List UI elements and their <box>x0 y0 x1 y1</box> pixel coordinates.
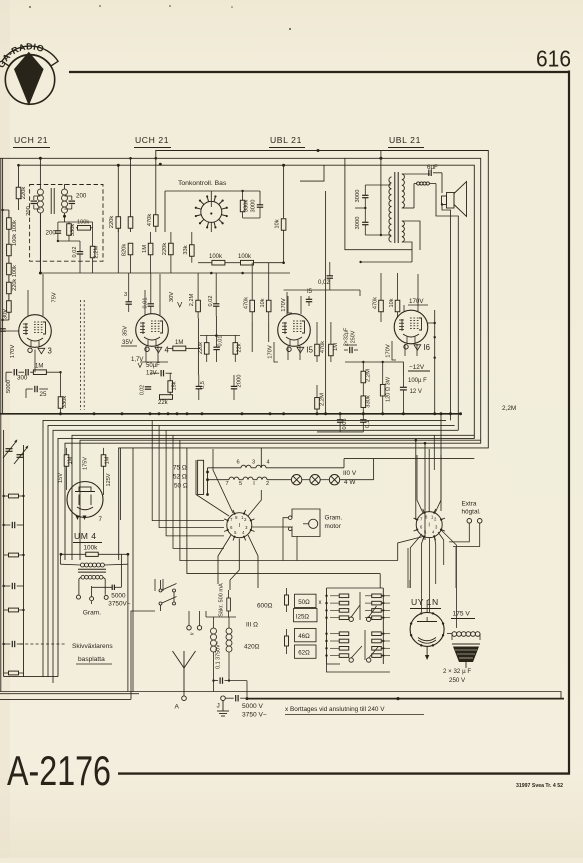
resistor 100k IF <box>78 226 91 231</box>
svg-text:470k: 470k <box>372 297 378 309</box>
selector bracket <box>198 460 204 494</box>
changer component 3 <box>9 553 19 557</box>
svg-text:5000 V: 5000 V <box>242 703 264 710</box>
resistor 100k coupling 2 <box>241 260 254 265</box>
IF transformer core <box>50 188 52 214</box>
mains choke right <box>226 628 232 634</box>
svg-text:100k: 100k <box>84 545 99 552</box>
rectifier cathode arrow <box>426 646 428 655</box>
gram terminal 2 with pin <box>90 597 94 601</box>
bottom bus heavy <box>247 698 564 700</box>
speaker field coil <box>417 182 420 185</box>
svg-text:Gram.: Gram. <box>83 610 101 617</box>
resistor 330k tube3 <box>58 397 63 409</box>
rectifier tube UY1N <box>410 612 444 646</box>
svg-text:UBL 21: UBL 21 <box>270 135 302 145</box>
svg-text:Säkr. 500 mA: Säkr. 500 mA <box>218 583 224 617</box>
resistor 100k ladder 4 <box>7 282 12 294</box>
wire left edge vertical pair <box>2 158 4 414</box>
wire IF bottom joins <box>58 240 80 242</box>
resistor 120ohm 3W <box>380 384 385 396</box>
wire 431.9 link <box>317 431 363 433</box>
svg-text:3: 3 <box>252 460 255 466</box>
svg-text:−12V: −12V <box>409 364 425 371</box>
wire ladder rungs <box>3 209 9 211</box>
wire transformer secondary bottom leads <box>402 221 420 250</box>
svg-text:50 Ω: 50 Ω <box>174 483 188 490</box>
wire 3000 caps to transformer <box>365 184 391 186</box>
gram transformer primary <box>81 563 85 567</box>
wire lamp row <box>302 479 310 481</box>
wire dropper connections <box>327 587 384 589</box>
extra speaker terminal 1 <box>467 519 472 524</box>
wire speaker voice coil down <box>442 205 451 421</box>
wire tube4 pin leads <box>145 346 147 362</box>
svg-text:II0 V: II0 V <box>343 470 357 477</box>
svg-text:170V: 170V <box>10 345 16 359</box>
node secondary bottom <box>63 215 66 218</box>
resistor 100k coupling 1 <box>212 260 225 265</box>
wire output stage outline <box>345 158 412 249</box>
wire band line 4 <box>72 435 474 560</box>
wire bundle vertical 133 <box>132 448 134 692</box>
svg-text:2 × 32 µ F: 2 × 32 µ F <box>443 668 471 675</box>
wire UM4 leads <box>66 474 68 490</box>
resistor dropper vertical 1 <box>285 595 289 605</box>
dropper vertical rails <box>326 588 328 664</box>
svg-text:I6: I6 <box>424 343 431 352</box>
svg-text:2,2M: 2,2M <box>189 293 195 306</box>
capacitor 100uF 12V <box>400 386 407 388</box>
svg-text:62Ω: 62Ω <box>298 650 310 657</box>
svg-text:250V: 250V <box>350 330 356 343</box>
capacitor 0.5 <box>196 385 202 387</box>
svg-text:4: 4 <box>165 345 170 354</box>
filter capacitor can <box>452 643 480 645</box>
resistor dropper vertical 2 <box>285 636 289 646</box>
capacitor 300 a <box>13 369 15 375</box>
resistor 100k ladder 1 <box>7 218 12 230</box>
svg-text:220k: 220k <box>198 342 204 354</box>
svg-text:1M: 1M <box>333 343 339 351</box>
wire row1 riser <box>260 448 262 468</box>
dial lamp 1 <box>291 475 301 485</box>
capacitor 0.02 IF <box>77 251 83 253</box>
resistor 10k <box>283 165 285 218</box>
svg-text:0,01: 0,01 <box>0 335 1 346</box>
fuse 500mA <box>227 598 231 611</box>
changer component 6 <box>11 641 13 647</box>
svg-text:UBL 21: UBL 21 <box>389 135 421 145</box>
svg-text:10k: 10k <box>260 298 266 307</box>
capacitor 3000 lower <box>362 221 368 223</box>
svg-text:35V: 35V <box>122 326 128 336</box>
resistor 2.2M tube6 <box>361 371 366 383</box>
right frame line <box>568 71 570 775</box>
resistor 22k boxed <box>160 395 173 400</box>
wire right bundle lower <box>440 510 442 512</box>
svg-text:6: 6 <box>237 460 240 466</box>
wire long horizontal 573 <box>187 448 380 574</box>
scan specks at top edge <box>29 6 31 8</box>
svg-text:15V: 15V <box>58 473 64 483</box>
capacitor 2x32uF 250V <box>349 347 351 353</box>
svg-text:0,1: 0,1 <box>365 420 371 428</box>
svg-text:4: 4 <box>267 460 270 466</box>
resistor 220k ladder 5 <box>7 301 12 313</box>
svg-text:330k: 330k <box>244 200 250 213</box>
changer component 4 <box>11 583 13 589</box>
resistor 330k IF <box>67 224 72 236</box>
wire long horizontal 560 <box>180 440 398 560</box>
resistor 470k row <box>250 300 255 312</box>
capacitor 0.01 tube4 <box>213 346 219 348</box>
capacitor 0.02 row <box>213 303 219 305</box>
svg-text:0,02: 0,02 <box>72 247 78 258</box>
extra speaker terminal 2 <box>477 519 482 524</box>
wire 33k to 100k <box>192 261 198 264</box>
svg-text:Tonkontroll. Bas: Tonkontroll. Bas <box>178 180 227 187</box>
svg-text:0,01: 0,01 <box>217 336 223 347</box>
svg-text:220k 100k: 220k 100k <box>12 265 18 291</box>
wire lamp riser <box>373 459 375 480</box>
gram transformer core <box>78 568 106 570</box>
svg-text:100k: 100k <box>238 254 252 260</box>
junction dots chassis bus <box>59 412 62 415</box>
resistor 2.2M left <box>315 398 320 410</box>
svg-text:3750V−: 3750V− <box>108 601 130 608</box>
svg-text:470k: 470k <box>320 341 326 353</box>
svg-text:≈: ≈ <box>190 631 194 638</box>
capacitor 200 primary <box>36 196 38 208</box>
wire tone control top <box>210 191 212 201</box>
bottom bus thin <box>0 692 561 699</box>
resistor 1M tube4 <box>173 346 186 351</box>
changer component 5 <box>9 608 19 612</box>
resistor 1M mid <box>150 232 152 243</box>
capacitor 0.1 <box>360 419 366 421</box>
svg-text:330k: 330k <box>62 396 68 409</box>
chassis bus heavy line <box>0 413 461 415</box>
gram motor rotor <box>309 519 318 528</box>
svg-text:220k: 220k <box>109 216 115 229</box>
svg-text:3000: 3000 <box>355 217 361 230</box>
svg-text:820k: 820k <box>122 244 128 257</box>
wire mains risers <box>154 579 156 591</box>
svg-text:III Ω: III Ω <box>246 622 258 629</box>
svg-text:UCH 21: UCH 21 <box>135 135 169 145</box>
svg-text:30V: 30V <box>169 292 175 302</box>
svg-text:100µ F: 100µ F <box>408 378 427 384</box>
wire tube6 pin leads <box>404 344 406 356</box>
resistor 220k <box>18 165 20 210</box>
svg-text:175 V: 175 V <box>453 611 471 618</box>
svg-text:10k: 10k <box>275 219 281 228</box>
wire band line 5 <box>80 440 481 560</box>
svg-text:2,2M: 2,2M <box>366 369 372 382</box>
svg-text:170V: 170V <box>386 344 392 358</box>
svg-text:2×32µF: 2×32µF <box>343 327 349 346</box>
capacitor 15 <box>306 298 312 300</box>
wire vertical feed 118 <box>117 165 119 232</box>
resistor 330k tone <box>240 200 245 212</box>
capacitor 6uF <box>428 170 430 176</box>
gram terminal 1 <box>77 595 81 599</box>
ground symbol <box>222 701 224 712</box>
svg-text:UM 4: UM 4 <box>74 531 97 541</box>
svg-text:170V: 170V <box>409 298 424 305</box>
power transformer winding <box>452 632 457 637</box>
gram terminal 3 <box>104 595 108 599</box>
capacitor 0.02 small <box>145 386 151 388</box>
capacitor 50uF 12V <box>160 370 162 376</box>
svg-text:100k: 100k <box>77 220 89 226</box>
wire tube3 top leads <box>3 330 19 332</box>
wire top bus A <box>119 151 489 561</box>
svg-text:33k: 33k <box>183 245 189 254</box>
dropper terminal 2 <box>367 617 371 621</box>
svg-text:25: 25 <box>40 391 47 398</box>
capacitor 0.02 output <box>327 275 333 277</box>
IF transformer shield dashed box <box>30 185 103 262</box>
changer component 7 <box>9 671 19 675</box>
wire gram motor leads <box>283 518 288 561</box>
resistor 100k gram <box>86 552 99 556</box>
svg-text:UY 1N: UY 1N <box>411 597 439 607</box>
svg-text:1M: 1M <box>175 340 183 346</box>
svg-text:0,5: 0,5 <box>200 381 206 389</box>
svg-text:3: 3 <box>124 292 127 298</box>
svg-text:1M: 1M <box>105 456 111 464</box>
wire secondary top leads <box>402 173 430 175</box>
svg-text:50Ω: 50Ω <box>298 599 310 606</box>
capacitor 0.01 row <box>148 303 154 305</box>
svg-text:22k: 22k <box>158 400 169 406</box>
wire tube4 grid row link <box>200 335 240 337</box>
svg-text:600Ω: 600Ω <box>257 603 273 610</box>
svg-text:3750 V−: 3750 V− <box>242 712 267 719</box>
svg-text:125V: 125V <box>106 473 112 486</box>
tube V15 UBL21 <box>278 314 311 347</box>
gram motor plug terminals <box>187 626 191 630</box>
output transformer primary <box>390 177 392 185</box>
svg-text:Skivväxlarens: Skivväxlarens <box>72 643 113 650</box>
tube V16 UBL21 <box>394 310 428 344</box>
dropper box 62 ohm <box>295 645 317 658</box>
capacitor 3000 upper <box>362 194 368 196</box>
output transformer secondary top <box>402 174 405 208</box>
wire socket right fan <box>428 449 430 512</box>
mains choke left <box>211 628 217 634</box>
wire changer bottom <box>4 676 58 678</box>
svg-text:5000: 5000 <box>111 593 126 600</box>
resistor 470k above tube6 <box>379 300 384 312</box>
resistor 220k mid3 <box>169 243 174 255</box>
dropper terminal 1 <box>349 617 353 621</box>
wire left bundle to changer <box>152 420 224 520</box>
resistor 1M above tube5 <box>329 344 334 356</box>
svg-text:4 W: 4 W <box>344 479 356 486</box>
gram transformer secondary <box>81 575 85 579</box>
svg-text:7: 7 <box>226 481 229 487</box>
dropper box 125 ohm <box>294 609 318 622</box>
wire output grid lines <box>284 289 360 291</box>
wire dropper selector links <box>351 605 360 617</box>
gram motor terminal 1 <box>288 516 292 520</box>
wire tone bottom <box>243 217 260 219</box>
resistor 470k above tube5 <box>315 344 320 356</box>
capacitor 25 <box>34 386 36 392</box>
gram motor terminal 2 <box>288 527 292 531</box>
svg-text:1M: 1M <box>35 364 43 370</box>
dropper terminal 3 <box>349 658 353 662</box>
wire extra speaker leads <box>449 523 469 542</box>
wire band line 1 <box>43 420 446 676</box>
top frame line <box>69 71 570 73</box>
svg-text:högtal.: högtal. <box>462 509 481 516</box>
svg-text:7: 7 <box>99 516 103 523</box>
wire band line 2 <box>48 425 455 676</box>
capacitor gram 3750V <box>111 585 113 590</box>
dial lamp 2 <box>310 475 320 485</box>
tube V4 UCH21 <box>136 314 169 347</box>
capacitor left edge 0.01 <box>0 328 6 330</box>
wire 434 vertical tube6 right <box>434 310 436 414</box>
svg-text:200: 200 <box>26 206 32 216</box>
dropper terminal 4 <box>367 658 371 662</box>
magic eye UM4 tube <box>67 482 103 518</box>
resistor 220k ladder 3 <box>7 263 12 275</box>
dial lamp 3 <box>329 475 339 485</box>
svg-text:10k: 10k <box>389 298 395 307</box>
capacitor 3000 tone <box>257 204 263 206</box>
leader line to basplatta <box>20 643 66 645</box>
variable capacitor gang 1 <box>6 448 13 450</box>
dropper box 50 ohm <box>295 594 317 607</box>
antenna terminal A <box>182 696 187 701</box>
resistor 22k tube4 <box>233 343 238 355</box>
capacitor antenna coupling <box>235 695 237 701</box>
wire -12V net <box>363 362 403 375</box>
svg-text:1,7V: 1,7V <box>131 357 143 363</box>
svg-text:0,02: 0,02 <box>208 296 214 307</box>
svg-text:Extra: Extra <box>462 501 477 508</box>
svg-text:170V: 170V <box>268 345 274 359</box>
wire tube4 top leads <box>144 290 146 315</box>
wire bottom left pair <box>0 693 139 695</box>
svg-text:46Ω: 46Ω <box>298 633 310 640</box>
svg-text:75V: 75V <box>51 292 57 302</box>
resistor 2.2M row <box>196 300 201 312</box>
wire top bus B <box>0 158 481 560</box>
svg-text:50µF: 50µF <box>146 363 160 369</box>
svg-text:30V: 30V <box>2 309 8 319</box>
svg-text:x: x <box>319 600 322 606</box>
wire gram right vertical <box>127 554 129 691</box>
tube socket right <box>416 512 442 538</box>
wire tone control right <box>228 211 243 213</box>
svg-text:3000: 3000 <box>251 200 257 213</box>
resistor 820k <box>128 243 133 255</box>
wire 458 link <box>344 458 474 460</box>
svg-text:0,1 3750V−: 0,1 3750V− <box>216 641 222 669</box>
bottom frame line <box>118 772 570 774</box>
antenna <box>183 651 185 670</box>
wire vertical 380 from bus <box>380 151 382 236</box>
svg-text:330k: 330k <box>366 395 372 408</box>
resistor 220k mid2 <box>130 158 132 232</box>
capacitor 2000 <box>231 385 237 387</box>
wire tone links <box>210 222 212 232</box>
svg-text:22k: 22k <box>236 343 242 352</box>
svg-text:1M: 1M <box>142 245 148 253</box>
shield dashed strip <box>80 300 82 410</box>
tube socket left <box>227 513 252 538</box>
wire socket left fan <box>196 460 229 516</box>
changer component 1 <box>9 494 19 498</box>
svg-text:UCH 21: UCH 21 <box>14 135 48 145</box>
svg-text:12V: 12V <box>146 371 157 377</box>
resistor 2.2M IF <box>90 246 95 258</box>
resistor 33k <box>190 245 195 257</box>
svg-text:300: 300 <box>17 375 28 382</box>
resistor 100k ladder 2 <box>7 244 12 256</box>
resistor 10k above tube6 <box>395 300 400 312</box>
svg-text:A-2176: A-2176 <box>7 747 111 794</box>
wire anode feed 412 <box>361 261 412 263</box>
wire speaker connections <box>441 173 443 193</box>
junction dots on buses <box>39 157 42 160</box>
wire socket right box <box>404 514 447 538</box>
resistor 220k tube4 <box>204 343 209 355</box>
wire top bus C <box>18 165 474 676</box>
dropper ladder resistors upper <box>339 594 349 598</box>
wire vertical drops to pre-tube row <box>197 263 199 292</box>
svg-text:220k: 220k <box>21 187 27 200</box>
wire secondary to grid network <box>64 216 66 222</box>
wire grid return line y274 <box>40 272 290 274</box>
capacitor 0.05 <box>337 419 343 421</box>
svg-text:12 V: 12 V <box>410 389 422 395</box>
tube V3 UCH21 <box>19 315 52 348</box>
wire mains to bus <box>213 681 215 692</box>
mains switch <box>159 589 162 592</box>
wire band verticals right <box>415 440 417 520</box>
svg-text:616: 616 <box>536 46 571 72</box>
svg-text:2: 2 <box>266 481 269 487</box>
wire 326 vertical <box>325 191 327 414</box>
svg-text:Gram.: Gram. <box>325 515 343 522</box>
IF transformer primary coil <box>37 189 43 195</box>
svg-text:330k: 330k <box>70 224 76 237</box>
output transformer secondary bottom <box>402 221 405 242</box>
svg-text:motor: motor <box>325 523 342 530</box>
svg-text:1M: 1M <box>68 456 74 464</box>
svg-text:6µF: 6µF <box>427 164 438 171</box>
earth terminal J <box>221 696 226 701</box>
resistor 220k mid1 <box>116 217 121 229</box>
wire tube5 pin leads <box>287 346 289 360</box>
resistor 470k top <box>155 158 157 232</box>
output transformer core <box>394 172 396 243</box>
wire band line 3 <box>53 430 458 683</box>
resistor 1M tube3 <box>33 370 46 375</box>
svg-text:35V: 35V <box>122 339 134 346</box>
capacitor 3 pF <box>126 301 132 303</box>
svg-text:220k: 220k <box>162 243 168 256</box>
wire tube5 top leads <box>286 292 288 315</box>
svg-text:470k: 470k <box>244 297 250 309</box>
